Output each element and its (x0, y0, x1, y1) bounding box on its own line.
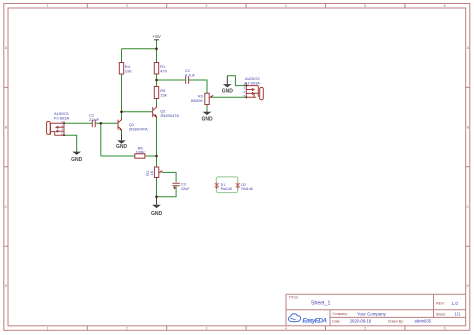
svg-text:C: C (466, 205, 469, 209)
svg-text:3: 3 (205, 327, 207, 331)
ground bottom center (151, 197, 163, 217)
svg-text:15k: 15k (160, 92, 166, 97)
svg-text:6: 6 (444, 4, 446, 8)
wire R4 top drop (121, 49, 123, 63)
svg-text:100K: 100K (136, 150, 146, 155)
svg-text:22uF: 22uF (181, 186, 191, 191)
potentiometer R2 (145, 167, 162, 178)
svg-text:1.0: 1.0 (452, 301, 459, 306)
svg-text:REV:: REV: (436, 302, 445, 306)
svg-text:Rst146: Rst146 (241, 187, 252, 191)
wire R6 right to emitter column (145, 155, 157, 157)
wire R5 bottom to Q2 collector (156, 99, 158, 106)
wire jack tip to C1 (64, 122, 92, 124)
wire R1 bottom to R5 top (156, 74, 158, 87)
wire +5V drop to R1 top (156, 40, 158, 63)
resistor R6 (135, 145, 145, 158)
wire Q1 emitter stub (121, 131, 123, 134)
svg-text:TITLE:: TITLE: (289, 296, 299, 300)
svg-text:2020-08-18: 2020-08-18 (350, 319, 372, 324)
diode D2 (236, 182, 240, 188)
junction dots (63, 48, 247, 199)
EasyEDA logo (289, 314, 328, 325)
wire AUDIO2 gnd elbow (227, 76, 246, 86)
wire Q2 emitter down to R2 (156, 116, 158, 167)
capacitor C2 (185, 68, 196, 84)
ground under R3 (201, 111, 213, 123)
audio jack AUDIO2 (243, 76, 263, 100)
svg-text:alwin935: alwin935 (415, 319, 432, 324)
svg-text:1: 1 (47, 327, 49, 331)
transistor Q2 (153, 106, 180, 118)
svg-text:2N3904TA: 2N3904TA (129, 126, 148, 131)
svg-text:2: 2 (126, 327, 128, 331)
svg-text:2.2uF: 2.2uF (89, 117, 100, 122)
svg-text:Sheet:: Sheet: (436, 312, 446, 316)
svg-text:5: 5 (364, 4, 366, 8)
ground at AUDIO2 (222, 76, 234, 95)
svg-text:Your Company: Your Company (357, 311, 387, 316)
svg-text:4: 4 (285, 4, 287, 8)
svg-text:D: D (5, 284, 8, 288)
svg-text:D: D (466, 284, 469, 288)
svg-text:EasyEDA: EasyEDA (303, 317, 328, 324)
node emitter / R6 (155, 155, 158, 158)
svg-text:2: 2 (126, 4, 128, 8)
resistor R1 (154, 63, 167, 75)
node C1 / base / R6 (100, 122, 103, 125)
svg-text:C: C (5, 205, 8, 209)
svg-text:GND: GND (71, 157, 83, 163)
svg-text:3: 3 (205, 4, 207, 8)
svg-text:Sheet_1: Sheet_1 (311, 300, 330, 306)
node power rail (155, 48, 158, 51)
wire to C2 left (157, 79, 186, 81)
svg-text:+5V: +5V (153, 34, 162, 39)
wire R4 bottom to Q1 collector (121, 74, 123, 118)
audio jack AUDIO1 (47, 111, 70, 136)
svg-text:Company:: Company: (332, 312, 348, 316)
ground under AUDIO1 (71, 152, 83, 164)
wire R2 bottom to ground node (156, 178, 158, 197)
node Q2 base tap (120, 111, 123, 114)
capacitor C3 (172, 181, 190, 191)
svg-text:2N3904TA: 2N3904TA (160, 113, 179, 118)
wire C2 right to R3 top (189, 80, 207, 93)
svg-text:Rst146: Rst146 (221, 187, 232, 191)
module box D1 D2 (215, 177, 253, 193)
wire rail to R4 branch (122, 48, 157, 50)
node ground bottom (155, 196, 158, 199)
wire R3 wiper to AUDIO2 (211, 96, 247, 98)
resistor R5 (154, 87, 166, 99)
title block (286, 294, 466, 326)
svg-text:10K: 10K (125, 68, 132, 73)
resistor R4 (119, 63, 132, 75)
wire C1 junction down (100, 123, 102, 156)
node jack2 top (245, 85, 247, 87)
svg-text:Drawn By:: Drawn By: (388, 319, 404, 323)
svg-text:PJ-603A: PJ-603A (245, 80, 261, 85)
svg-text:6: 6 (444, 327, 446, 331)
capacitor C1 (89, 112, 100, 127)
node jack1 tip (63, 122, 65, 124)
svg-text:470: 470 (160, 68, 167, 73)
node jack1 sleeve (63, 134, 65, 136)
svg-text:1K: 1K (149, 170, 154, 175)
wire C1 to Q1 base (95, 122, 118, 124)
node jack2 bottom (245, 96, 247, 98)
wire R2 wiper branch through C3 (157, 172, 177, 196)
potentiometer R3 (191, 93, 213, 104)
svg-text:4.7uF: 4.7uF (185, 72, 196, 77)
wire node to R6 left (101, 155, 135, 157)
svg-text:Date:: Date: (332, 319, 340, 323)
power flag +5V (153, 34, 162, 40)
svg-text:1/1: 1/1 (455, 312, 461, 317)
node C2 tap (155, 79, 158, 82)
svg-text:GND: GND (201, 116, 213, 122)
svg-text:GND: GND (151, 211, 163, 217)
wire Q2 base from Q1 collector (122, 111, 153, 113)
diode D1 (215, 182, 219, 188)
svg-text:GND: GND (222, 88, 234, 94)
svg-text:1: 1 (47, 4, 49, 8)
svg-text:GND: GND (116, 144, 128, 150)
wire jack sleeve to GND (64, 135, 77, 151)
svg-text:B500K: B500K (191, 98, 203, 103)
svg-text:4: 4 (285, 327, 287, 331)
svg-text:5: 5 (364, 327, 366, 331)
ground under Q1 (116, 134, 128, 150)
transistor Q1 (118, 117, 148, 131)
wire R3 bottom stub (206, 105, 208, 111)
